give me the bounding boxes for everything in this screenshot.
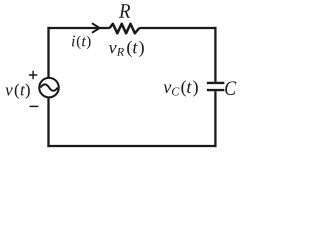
label i(t) bbox=[72, 36, 91, 50]
label C bbox=[225, 81, 236, 95]
wire top segment from resistor bbox=[139, 27, 216, 29]
current arrow i(t) bbox=[92, 23, 100, 33]
wire right-top segment bbox=[214, 27, 216, 82]
label v(t) bbox=[5, 84, 29, 99]
label vR(t) bbox=[109, 41, 144, 57]
label vC(t) bbox=[164, 80, 198, 96]
wire top segment to resistor bbox=[47, 27, 109, 29]
wire right-bottom segment bbox=[214, 91, 216, 147]
wire left-top segment bbox=[47, 27, 49, 78]
wire left-bottom segment bbox=[47, 97, 49, 147]
voltage source v(t) bbox=[39, 78, 59, 98]
label R bbox=[119, 4, 130, 17]
resistor R bbox=[110, 24, 140, 34]
wire bottom segment bbox=[47, 145, 216, 147]
capacitor C bbox=[207, 83, 224, 90]
polarity plus bbox=[29, 71, 37, 79]
polarity minus bbox=[30, 105, 39, 107]
